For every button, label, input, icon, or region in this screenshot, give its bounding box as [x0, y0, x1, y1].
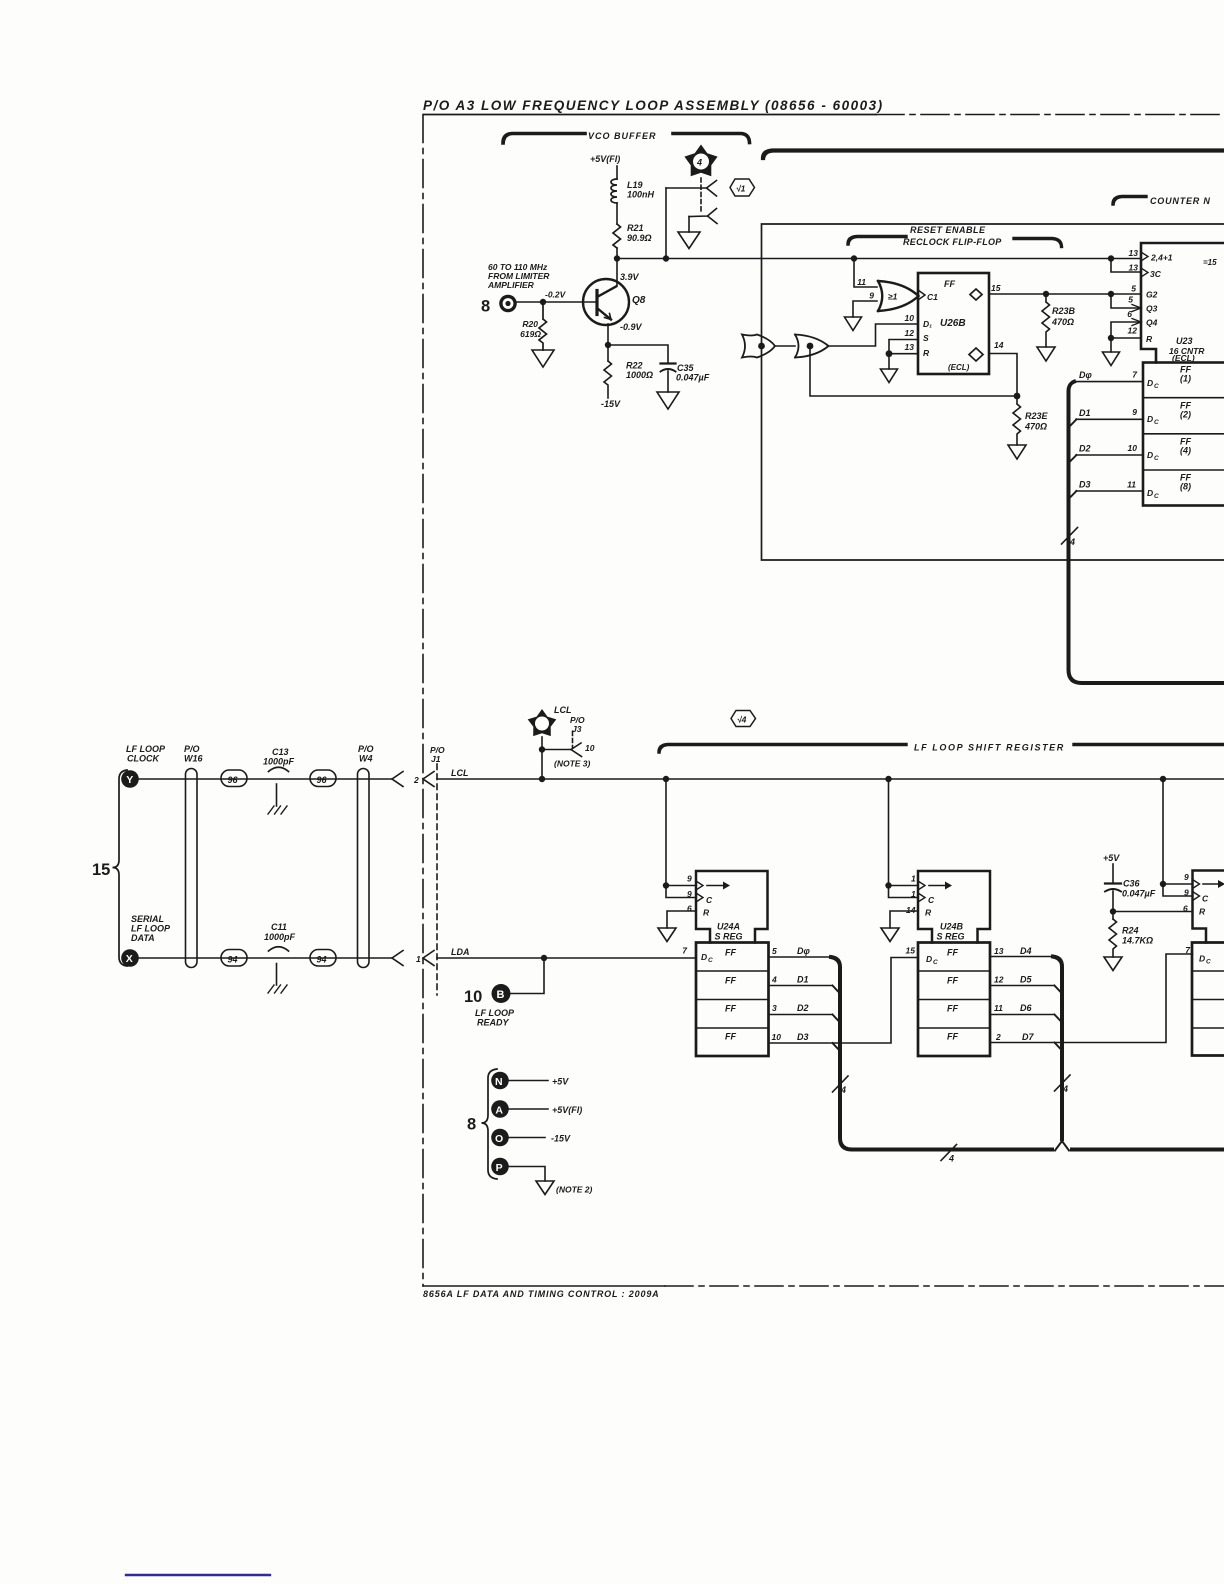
svg-text:FF: FF — [947, 948, 958, 958]
svg-text:P/O: P/O — [184, 744, 200, 754]
shift register U24B clock box — [918, 871, 990, 943]
ground (C11 hatch) — [268, 985, 287, 993]
wire star to LCL — [541, 737, 543, 779]
svg-text:COUNTER N: COUNTER N — [1150, 196, 1211, 206]
supply +5V / C36 / R24 — [1103, 853, 1120, 863]
terminal A — [491, 1100, 582, 1118]
wire Q3 jog — [1111, 294, 1141, 308]
svg-text:S: S — [923, 333, 929, 343]
capacitor C13 (feedthrough) — [263, 747, 295, 767]
svg-text:G2: G2 — [1146, 290, 1158, 300]
svg-text:10: 10 — [585, 743, 595, 753]
wire to C35 — [608, 345, 668, 363]
terminal N — [491, 1072, 569, 1090]
svg-text:13: 13 — [905, 342, 915, 352]
svg-text:4: 4 — [1062, 1084, 1068, 1094]
wire D0 into counter — [1074, 381, 1143, 383]
svg-text:≥1: ≥1 — [888, 292, 898, 302]
svg-text:RECLOCK FLIP-FLOP: RECLOCK FLIP-FLOP — [903, 237, 1002, 247]
inductor L19 — [611, 179, 617, 203]
svg-text:R23B: R23B — [1052, 306, 1076, 316]
wire D1 into counter — [1076, 418, 1143, 420]
svg-text:DATA: DATA — [131, 933, 155, 943]
capacitor C36 — [1105, 882, 1121, 884]
pin diamond (out 15) — [970, 289, 982, 300]
terminal Y (LF LOOP CLOCK) — [121, 744, 166, 788]
connector P/O J1 dashed — [436, 764, 438, 995]
svg-text:12: 12 — [994, 975, 1004, 985]
wire U24A out D1 — [769, 985, 833, 987]
brace 8 — [467, 1116, 476, 1134]
svg-text:12: 12 — [1128, 326, 1138, 336]
ground (U24B R) — [881, 928, 899, 942]
ground (U23 R) — [1103, 352, 1120, 366]
bus slant D1 — [1069, 419, 1077, 427]
node (gate A / loop wire) — [758, 343, 765, 350]
pin G2 — [1131, 284, 1157, 300]
svg-text:D2: D2 — [797, 1003, 809, 1013]
svg-text:11: 11 — [994, 1003, 1003, 1013]
node branch to J3 — [539, 746, 545, 752]
svg-text:LF LOOP: LF LOOP — [131, 924, 171, 934]
bus width marker /4 (U24B) — [1055, 1075, 1071, 1091]
node (feedback/R23E) — [1014, 393, 1021, 400]
flip-flop U26B — [918, 273, 989, 374]
svg-text:5: 5 — [772, 946, 777, 956]
svg-text:-15V: -15V — [551, 1134, 571, 1144]
svg-text:C: C — [1154, 455, 1159, 462]
svg-text:CLOCK: CLOCK — [127, 754, 160, 764]
svg-text:1: 1 — [911, 874, 916, 884]
wire U24A out D2 — [769, 1014, 833, 1016]
svg-text:A: A — [495, 1104, 503, 1116]
wire LCL to U25 clock — [1162, 779, 1164, 884]
svg-text:C13: C13 — [272, 747, 289, 757]
pin diamond (out 14) — [969, 348, 983, 361]
pin Q3 marker — [1132, 305, 1141, 312]
section label COUNTER N (clipped) — [1113, 196, 1211, 206]
wire U24B out D5 — [990, 985, 1054, 987]
shift register U24B FF stack — [918, 943, 990, 1057]
svg-text:N: N — [495, 1076, 503, 1088]
ground (R23B) — [1037, 347, 1055, 361]
svg-text:4: 4 — [948, 1154, 954, 1164]
bus width marker /4 — [1062, 528, 1078, 545]
svg-text:9: 9 — [869, 291, 874, 301]
pin pill 96 (left) — [221, 770, 247, 787]
wire base — [517, 301, 597, 303]
net LDA — [451, 947, 470, 957]
section label LF LOOP SHIFT REGISTER — [659, 745, 906, 753]
bus merge arrow — [1057, 1147, 1068, 1152]
svg-text:C: C — [1202, 894, 1209, 904]
svg-text:LDA: LDA — [451, 947, 470, 957]
svg-text:C: C — [1154, 383, 1159, 390]
wire LCL to U24B clock — [888, 779, 890, 886]
wire emitter — [607, 324, 609, 361]
svg-text:10: 10 — [464, 988, 482, 1006]
section label RESET ENABLE RECLOCK FLIP-FLOP — [848, 225, 1062, 247]
svg-text:8: 8 — [481, 298, 490, 316]
svg-text:Q3: Q3 — [1146, 304, 1158, 314]
svg-text:9: 9 — [1184, 872, 1189, 882]
svg-text:D1: D1 — [797, 975, 809, 985]
wire LCL to U24A clock — [665, 779, 667, 886]
bus D0-D3 (counter) — [1069, 382, 1224, 683]
svg-text:15: 15 — [906, 946, 916, 956]
wire chevron to collector node — [665, 188, 667, 259]
supply label +5V(FI) — [590, 154, 620, 164]
svg-text:L19: L19 — [627, 180, 643, 190]
bus U24B D4-D7 — [1053, 957, 1062, 1140]
svg-text:B: B — [497, 989, 505, 1001]
wire gate pin 11 — [854, 259, 877, 288]
svg-text:D₁: D₁ — [923, 319, 932, 329]
svg-text:(4): (4) — [1180, 446, 1191, 456]
svg-text:8: 8 — [467, 1116, 476, 1134]
wire P to ground — [509, 1167, 545, 1182]
svg-text:W4: W4 — [359, 754, 373, 764]
svg-text:+5V(FI): +5V(FI) — [552, 1105, 582, 1115]
wire gate A out — [775, 345, 795, 347]
svg-text:(NOTE 3): (NOTE 3) — [554, 759, 591, 769]
ground (C13 hatch) — [268, 806, 287, 814]
svg-text:R: R — [925, 908, 932, 918]
svg-text:R20: R20 — [522, 319, 538, 329]
svg-text:C1: C1 — [927, 292, 938, 302]
wire Y row — [139, 778, 392, 780]
svg-text:11: 11 — [1127, 480, 1136, 490]
wire R input — [1111, 338, 1141, 352]
wire D3 into counter — [1076, 490, 1143, 492]
svg-text:3C: 3C — [1150, 269, 1162, 279]
svg-text:1000pF: 1000pF — [263, 757, 295, 767]
bus width marker /4 (U24A) — [833, 1076, 849, 1092]
wire U24A out D0 — [769, 956, 832, 958]
shift register U25A clock box (clipped) — [1193, 871, 1224, 943]
svg-text:AMPLIFIER: AMPLIFIER — [487, 280, 535, 290]
svg-text:R24: R24 — [1122, 926, 1139, 936]
svg-text:R22: R22 — [626, 361, 643, 371]
svg-text:470Ω: 470Ω — [1051, 317, 1074, 327]
svg-text:3.9V: 3.9V — [620, 272, 640, 282]
ground (R23E) — [1008, 445, 1026, 459]
svg-text:(2): (2) — [1180, 410, 1191, 420]
svg-text:D: D — [701, 952, 707, 962]
wire D2 into counter — [1076, 454, 1143, 456]
wire U24B out D7 (cascade to U25) — [990, 954, 1193, 1043]
svg-text:94: 94 — [228, 955, 238, 965]
connector chevron (lower, to ground) — [689, 209, 717, 224]
svg-text:R: R — [1146, 334, 1153, 344]
svg-text:Q4: Q4 — [1146, 318, 1158, 328]
svg-text:D: D — [1147, 488, 1153, 498]
connector chevron J (upper) — [666, 181, 717, 197]
wire gate B feedback drop — [810, 346, 1017, 396]
svg-text:LCL: LCL — [554, 705, 572, 715]
resistor R22 — [604, 361, 612, 398]
counter U23 control box — [1141, 243, 1224, 363]
svg-text:+5V(FI): +5V(FI) — [590, 154, 620, 164]
svg-text:Y: Y — [126, 774, 133, 786]
wire LCL line — [437, 778, 1224, 780]
svg-text:96: 96 — [228, 775, 239, 785]
svg-text:4: 4 — [840, 1085, 846, 1095]
resistor R23B — [1042, 294, 1050, 347]
cable P/O W4 — [358, 769, 370, 968]
svg-text:D1: D1 — [1079, 408, 1091, 418]
ground (R20) — [532, 350, 554, 367]
svg-text:-15V: -15V — [601, 399, 621, 409]
svg-text:FF: FF — [947, 1032, 958, 1042]
svg-text:FF: FF — [725, 1004, 736, 1014]
wire supply to L19 — [616, 166, 618, 179]
svg-text:3: 3 — [772, 1003, 777, 1013]
svg-text:15: 15 — [92, 861, 110, 879]
wire B to LDA — [511, 958, 545, 994]
capacitor C35 — [661, 362, 676, 364]
bus slant D3 — [1069, 491, 1077, 499]
svg-text:LF LOOP: LF LOOP — [126, 744, 166, 754]
svg-text:94: 94 — [317, 955, 327, 965]
border: title underline + top dash-dot — [424, 114, 876, 116]
svg-text:6: 6 — [1127, 309, 1132, 319]
svg-text:9: 9 — [1132, 407, 1137, 417]
svg-text:(8): (8) — [1180, 482, 1191, 492]
svg-text:C11: C11 — [271, 922, 287, 932]
svg-text:W16: W16 — [184, 754, 204, 764]
svg-text:U23: U23 — [1176, 336, 1193, 346]
svg-text:(1): (1) — [1180, 374, 1191, 384]
svg-text:P: P — [496, 1162, 503, 1174]
svg-text:RESET ENABLE: RESET ENABLE — [910, 225, 986, 235]
svg-text:VCO BUFFER: VCO BUFFER — [588, 131, 657, 141]
connector chevrons J1 pin 1 — [392, 951, 403, 966]
pin C1 dynamic notch — [918, 290, 925, 300]
svg-text:READY: READY — [477, 1018, 510, 1028]
wire U26B out 15 to counter G2 — [989, 293, 1141, 295]
or-gate U26 (>=1) — [878, 281, 919, 311]
svg-text:C: C — [1154, 493, 1159, 500]
brace 15 — [92, 861, 110, 879]
terminal X (SERIAL LF LOOP DATA) — [121, 914, 171, 967]
wire U24A out D3 (cascade to U24B) — [769, 958, 919, 1044]
svg-text:15: 15 — [991, 283, 1001, 293]
pin pill 94 (right) — [310, 950, 336, 967]
svg-text:10: 10 — [1128, 443, 1138, 453]
svg-text:C: C — [708, 957, 713, 964]
wire gate pin 9 to ground — [853, 301, 877, 317]
wire to ground — [888, 354, 890, 369]
bus width marker /4 (lower bus) — [941, 1145, 957, 1161]
svg-text:J1: J1 — [431, 754, 441, 764]
svg-text:O: O — [495, 1133, 503, 1145]
svg-text:96: 96 — [317, 775, 328, 785]
assembly title — [423, 98, 884, 113]
svg-text:1000Ω: 1000Ω — [626, 370, 653, 380]
svg-text:U26B: U26B — [940, 318, 966, 329]
svg-text:P/O A3 LOW FREQUENCY LOOP ASSE: P/O A3 LOW FREQUENCY LOOP ASSEMBLY (0865… — [423, 98, 884, 113]
svg-text:C: C — [1206, 959, 1211, 966]
svg-text:5: 5 — [1131, 284, 1136, 294]
svg-text:11: 11 — [857, 277, 866, 287]
bottom caption — [423, 1289, 660, 1299]
svg-text:14.7KΩ: 14.7KΩ — [1122, 936, 1153, 946]
svg-text:5: 5 — [1128, 295, 1133, 305]
blue underline mark bottom-left — [126, 1574, 270, 1576]
svg-text:D4: D4 — [1020, 946, 1032, 956]
svg-text:Q8: Q8 — [632, 295, 646, 306]
svg-text:SERIAL: SERIAL — [131, 914, 164, 924]
wire to ground — [688, 217, 690, 233]
border: bottom dash-dot — [423, 1285, 665, 1287]
svg-text:470Ω: 470Ω — [1024, 422, 1047, 432]
ground (U26B S/R) — [881, 369, 898, 383]
svg-text:6: 6 — [687, 904, 692, 914]
ground (gate pin 9) — [845, 317, 862, 331]
node S/R tie — [886, 350, 893, 357]
svg-text:FF: FF — [725, 948, 736, 958]
shift register U25A FF stack (clipped) — [1192, 943, 1224, 1056]
svg-text:D2: D2 — [1079, 444, 1091, 454]
wire 3C jog — [1111, 259, 1141, 273]
svg-text:90.9Ω: 90.9Ω — [627, 233, 652, 243]
svg-text:2: 2 — [995, 1032, 1001, 1042]
svg-text:13: 13 — [1129, 263, 1139, 273]
wire U25 R to C36 node — [1113, 911, 1193, 913]
svg-text:0.047µF: 0.047µF — [1122, 889, 1156, 899]
svg-text:4: 4 — [771, 975, 777, 985]
terminal 8-Q input — [481, 295, 517, 316]
node collector junction — [614, 255, 620, 261]
node (collector line) — [663, 255, 669, 261]
wire (star cable dashed) — [700, 178, 702, 213]
svg-text:D7: D7 — [1022, 1032, 1034, 1042]
svg-text:R: R — [1199, 907, 1206, 917]
star terminal LCL — [528, 705, 572, 736]
svg-text:13: 13 — [994, 946, 1004, 956]
shift register U24A clock box — [696, 871, 768, 943]
star terminal 4 — [684, 145, 717, 177]
svg-text:U24A: U24A — [717, 922, 740, 932]
terminal P — [491, 1158, 592, 1195]
svg-text:0.047µF: 0.047µF — [676, 373, 710, 383]
or-gate A — [742, 335, 775, 358]
svg-text:D: D — [1199, 954, 1205, 964]
wire outer loop (counter section feed) — [762, 224, 1224, 560]
wire R21 to collector — [616, 248, 618, 286]
svg-text:Dφ: Dφ — [797, 946, 810, 956]
svg-text:100nH: 100nH — [627, 190, 655, 200]
svg-text:1: 1 — [416, 954, 421, 964]
svg-text:2,4+1: 2,4+1 — [1150, 253, 1173, 263]
svg-text:FF: FF — [947, 976, 958, 986]
wire LDA line — [437, 957, 696, 959]
svg-text:√1: √1 — [736, 184, 746, 194]
svg-text:FF: FF — [944, 279, 955, 289]
svg-text:FF: FF — [725, 976, 736, 986]
svg-text:=15: =15 — [1203, 258, 1217, 267]
svg-text:R23E: R23E — [1025, 411, 1049, 421]
node emitter junction — [605, 342, 611, 348]
svg-text:+5V: +5V — [1103, 853, 1120, 863]
svg-text:C36: C36 — [1123, 879, 1141, 889]
svg-text:-0.9V: -0.9V — [620, 322, 643, 332]
counter FF stack — [1143, 363, 1224, 506]
svg-text:D: D — [1147, 414, 1153, 424]
or-gate B — [795, 335, 829, 358]
border: left dash-dot — [422, 115, 424, 1287]
capacitor C11 (feedthrough) — [264, 922, 296, 942]
svg-text:13: 13 — [1129, 248, 1139, 258]
bus U24A D0-D3 — [831, 957, 1224, 1150]
svg-text:U24B: U24B — [940, 922, 964, 932]
svg-text:LF LOOP SHIFT REGISTER: LF LOOP SHIFT REGISTER — [914, 743, 1065, 753]
svg-text:10: 10 — [772, 1032, 782, 1042]
pin pill 94 (left) — [221, 950, 247, 967]
resistor R20 — [539, 302, 547, 350]
svg-text:+5V: +5V — [552, 1077, 569, 1087]
ground (U24A R) — [658, 928, 676, 942]
terminal O — [491, 1129, 571, 1147]
resistor R23E — [1013, 396, 1021, 445]
wire X row — [139, 957, 392, 959]
svg-text:Dφ: Dφ — [1079, 370, 1092, 380]
svg-text:14: 14 — [906, 905, 916, 915]
svg-text:D5: D5 — [1020, 975, 1032, 985]
svg-text:4: 4 — [696, 158, 702, 168]
resistor R24 — [1109, 919, 1117, 957]
svg-text:C: C — [706, 895, 713, 905]
svg-text:1000pF: 1000pF — [264, 932, 296, 942]
test point hexagon V1 — [730, 179, 755, 196]
svg-text:R: R — [703, 908, 710, 918]
transistor Q8 — [583, 279, 629, 325]
svg-text:9: 9 — [687, 874, 692, 884]
ground (connector) — [678, 232, 700, 249]
svg-text:D: D — [926, 954, 932, 964]
svg-text:D: D — [1147, 450, 1153, 460]
wire Q4 jog — [1111, 322, 1141, 338]
cable P/O W16 — [186, 769, 198, 968]
terminal B (LF LOOP READY) — [464, 984, 515, 1028]
svg-text:D3: D3 — [797, 1032, 809, 1042]
svg-text:√4: √4 — [737, 715, 747, 725]
connector chevrons J1 pin 2 — [392, 772, 403, 787]
svg-text:LCL: LCL — [451, 768, 469, 778]
svg-text:12: 12 — [905, 328, 915, 338]
svg-text:S REG: S REG — [937, 932, 965, 942]
test point hexagon V4 — [731, 711, 756, 727]
connector chevron J3 pin 10 — [542, 743, 582, 757]
pin 2,4+1 — [1141, 252, 1148, 261]
svg-text:FF: FF — [947, 1004, 958, 1014]
wire clock line to counter — [617, 258, 1141, 260]
svg-text:1: 1 — [911, 889, 916, 899]
svg-text:R: R — [923, 348, 930, 358]
svg-text:J3: J3 — [572, 724, 582, 734]
svg-text:C35: C35 — [677, 363, 695, 373]
wire U26B out 14 — [989, 354, 1017, 397]
svg-text:C: C — [933, 959, 938, 966]
svg-text:619Ω: 619Ω — [520, 329, 541, 339]
node (gate B / feedback) — [807, 343, 814, 350]
bus slant D2 — [1069, 455, 1077, 463]
svg-text:(ECL): (ECL) — [948, 363, 970, 372]
svg-text:-0.2V: -0.2V — [545, 290, 567, 300]
wire — [616, 203, 618, 224]
wire S input — [889, 340, 918, 355]
